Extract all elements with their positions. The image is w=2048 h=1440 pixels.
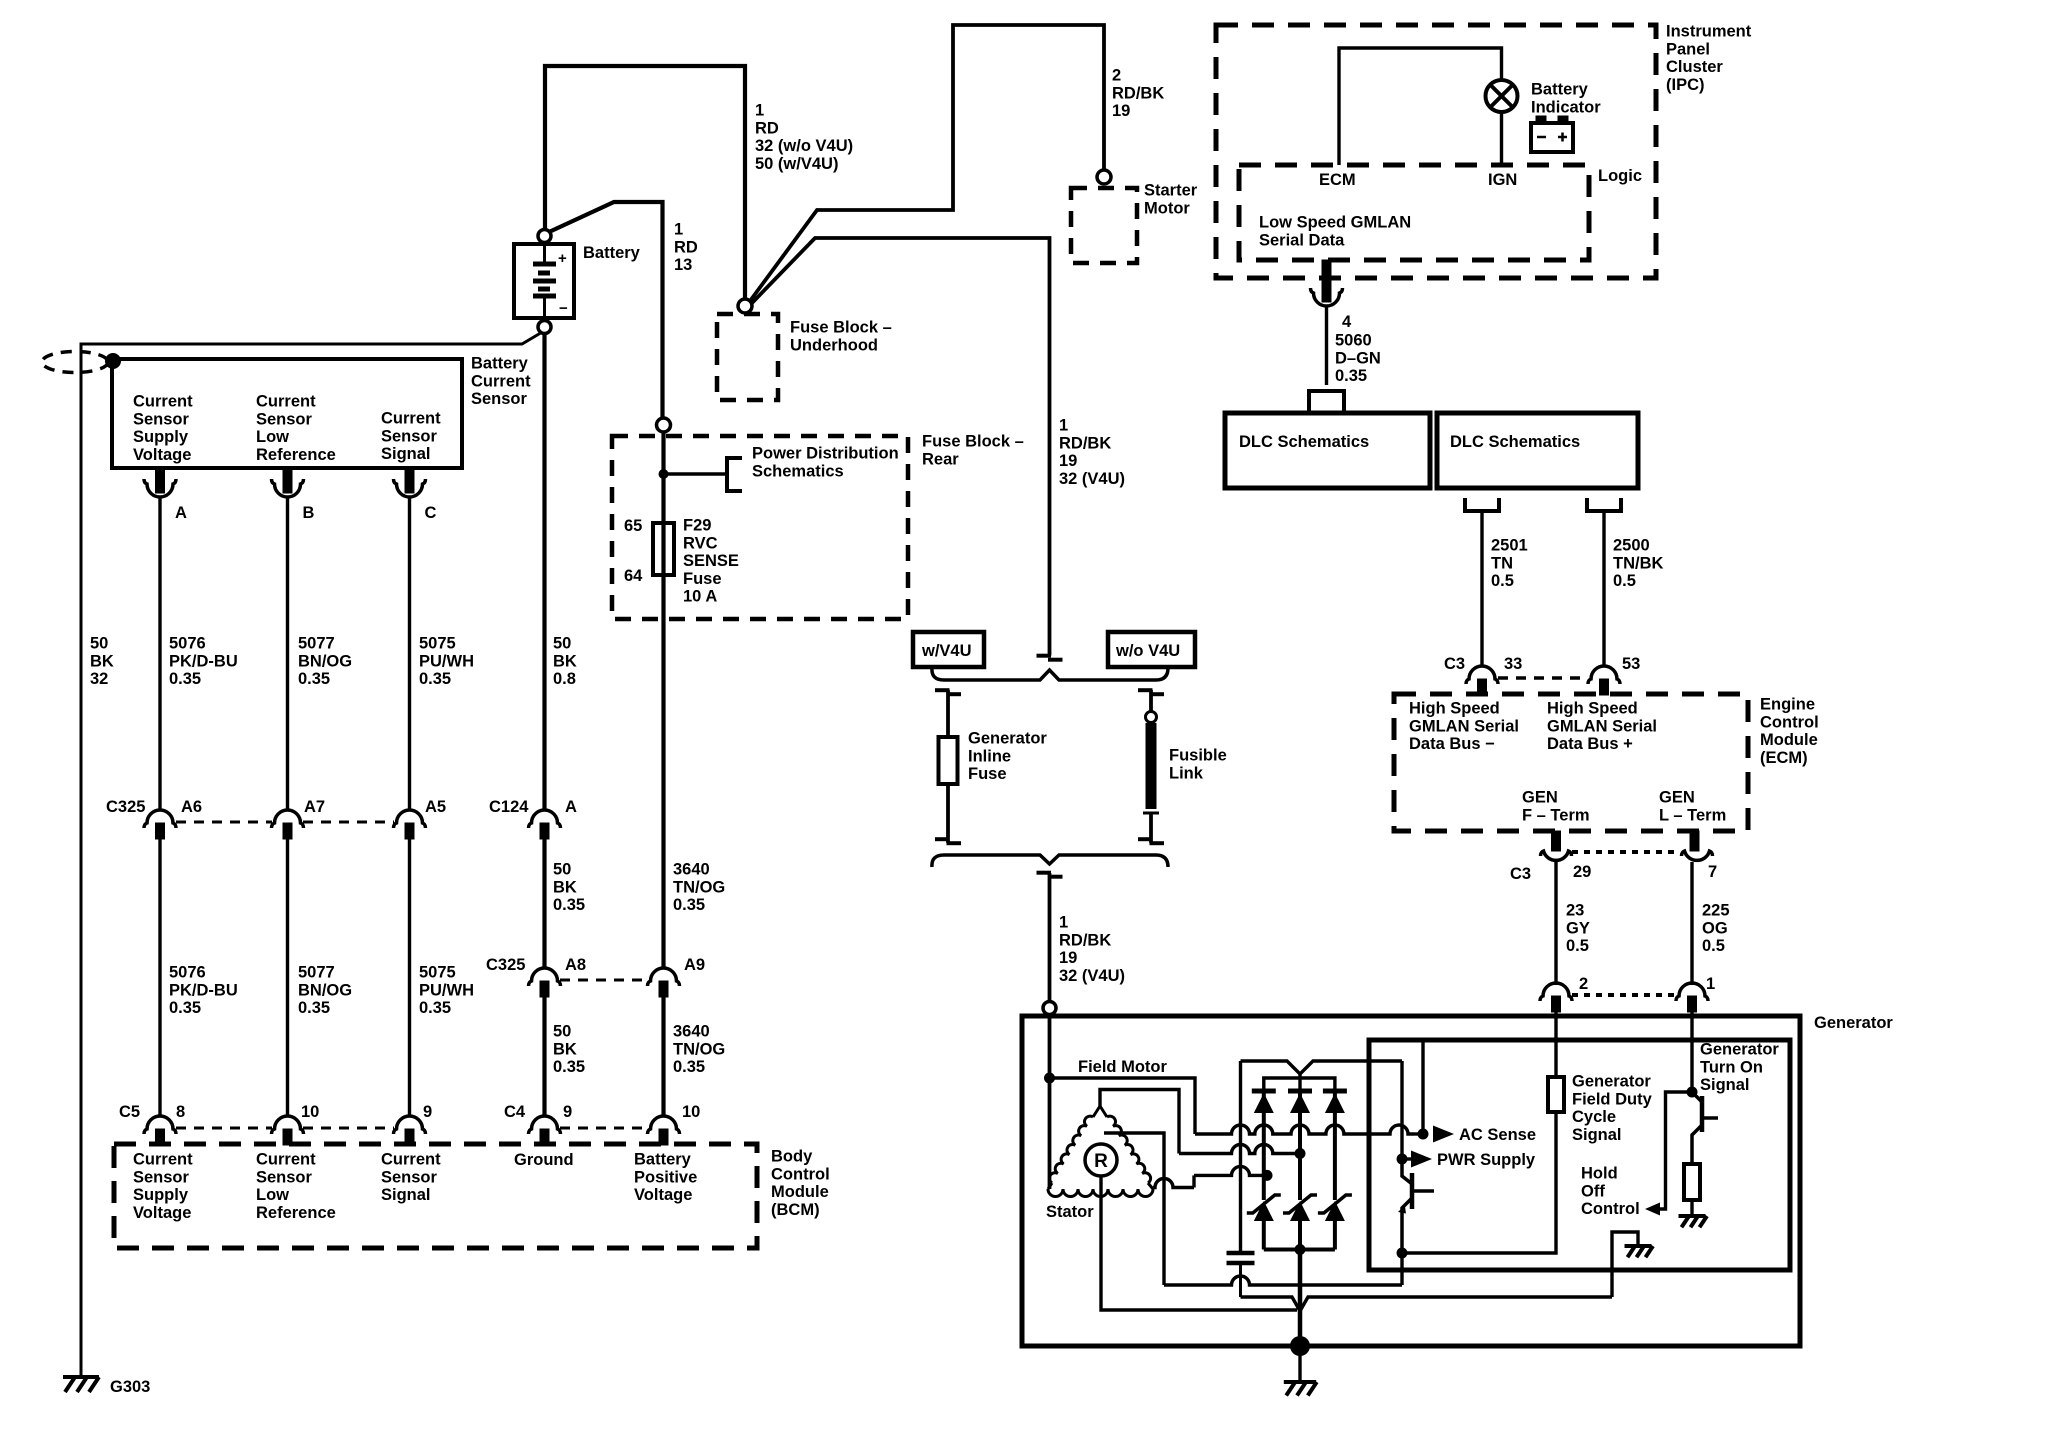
svg-text:Reference: Reference bbox=[256, 1204, 336, 1222]
regulator ground return to common node bbox=[1300, 1297, 1612, 1311]
svg-text:Sensor: Sensor bbox=[471, 390, 528, 408]
svg-text:Sensor: Sensor bbox=[256, 410, 313, 428]
connector C124 pin A bbox=[529, 798, 578, 839]
svg-text:A6: A6 bbox=[181, 798, 202, 816]
svg-text:C5: C5 bbox=[119, 1103, 140, 1121]
ECM pin L stub bbox=[1690, 831, 1699, 851]
label hold off control bbox=[1581, 1165, 1640, 1219]
wire A7 to C5 bbox=[286, 839, 289, 1116]
regulator ground bbox=[1625, 1246, 1654, 1257]
w/V4U branch wire tick bbox=[935, 690, 961, 694]
svg-text:Current: Current bbox=[256, 393, 316, 411]
svg-text:Serial Data: Serial Data bbox=[1259, 231, 1345, 249]
svg-text:C325: C325 bbox=[486, 956, 525, 974]
svg-text:65: 65 bbox=[624, 517, 642, 535]
svg-text:GEN: GEN bbox=[1522, 789, 1558, 807]
svg-text:C124: C124 bbox=[489, 798, 529, 816]
generator field duty cycle resistor bbox=[1548, 1077, 1564, 1112]
wire pin B to C325-A7 bbox=[286, 497, 289, 810]
rotor R bbox=[1085, 1144, 1117, 1176]
svg-text:50: 50 bbox=[553, 635, 571, 653]
svg-text:BK: BK bbox=[553, 878, 577, 896]
fuse block underhood node bbox=[738, 299, 752, 313]
battery icon in IPC bbox=[1531, 116, 1573, 152]
junction dot emitter node bbox=[1397, 1248, 1408, 1259]
svg-text:w/o V4U: w/o V4U bbox=[1115, 642, 1180, 660]
dashed link C4 9-10 bbox=[560, 1127, 648, 1130]
svg-text:Indicator: Indicator bbox=[1531, 98, 1601, 116]
junction dot phase to center rectifier leg bbox=[1295, 1148, 1306, 1159]
label wire 2 RD/BK 19 bbox=[1112, 67, 1164, 121]
svg-text:50: 50 bbox=[553, 861, 571, 879]
svg-text:Signal: Signal bbox=[381, 1186, 431, 1204]
svg-text:A: A bbox=[175, 504, 187, 522]
label wire 50 BK 0.35 lower bbox=[553, 1023, 585, 1077]
label generator field duty cycle signal bbox=[1572, 1073, 1653, 1144]
svg-text:Current: Current bbox=[133, 393, 193, 411]
svg-text:Cluster: Cluster bbox=[1666, 58, 1723, 76]
label fuse block rear bbox=[922, 433, 1024, 469]
generator box bbox=[1022, 1016, 1800, 1346]
connector pin 2 to generator bbox=[1540, 975, 1588, 1012]
label high speed GMLAN data bus plus bbox=[1547, 700, 1657, 754]
svg-text:Generator: Generator bbox=[1814, 1014, 1893, 1032]
engine control module (ECM) box bbox=[1394, 694, 1748, 831]
svg-text:BK: BK bbox=[553, 1040, 577, 1058]
svg-text:0.35: 0.35 bbox=[419, 670, 451, 688]
dashed link C325 A7-A5 bbox=[303, 821, 394, 824]
label low speed GMLAN serial data bbox=[1259, 214, 1411, 250]
svg-text:50: 50 bbox=[553, 1023, 571, 1041]
label connector C124 bbox=[489, 798, 529, 816]
label wire 2501 TN 0.5 bbox=[1491, 537, 1528, 591]
top brace of V4U split bbox=[932, 668, 1168, 680]
svg-text:Sensor: Sensor bbox=[133, 410, 190, 428]
svg-text:225: 225 bbox=[1702, 902, 1730, 920]
svg-text:9: 9 bbox=[423, 1103, 432, 1121]
wire regulator top to AC sense dot bbox=[1421, 1040, 1424, 1134]
svg-text:Low Speed GMLAN: Low Speed GMLAN bbox=[1259, 214, 1411, 232]
label battery current sensor bbox=[471, 355, 531, 409]
svg-text:0.8: 0.8 bbox=[553, 670, 576, 688]
svg-text:DLC Schematics: DLC Schematics bbox=[1450, 433, 1580, 451]
svg-text:1: 1 bbox=[755, 102, 764, 120]
svg-text:32 (w/o V4U): 32 (w/o V4U) bbox=[755, 137, 853, 155]
svg-text:Fuse Block –: Fuse Block – bbox=[790, 319, 892, 337]
svg-text:−: − bbox=[559, 300, 568, 317]
svg-text:OG: OG bbox=[1702, 919, 1728, 937]
svg-text:0.35: 0.35 bbox=[298, 670, 330, 688]
wire A8 to C4-9 bbox=[542, 997, 546, 1116]
battery bbox=[514, 244, 641, 318]
bottom brace of V4U split bbox=[932, 855, 1168, 867]
svg-text:Rear: Rear bbox=[922, 450, 959, 468]
dashed link C3 33-53 bbox=[1498, 676, 1588, 680]
svg-text:GEN: GEN bbox=[1659, 789, 1695, 807]
svg-text:Link: Link bbox=[1169, 764, 1204, 782]
hold off control wire bbox=[1660, 1092, 1687, 1209]
svg-text:9: 9 bbox=[563, 1103, 572, 1121]
label connector C325 bbox=[106, 798, 145, 816]
generator inline fuse bbox=[939, 737, 958, 784]
rectifier bottom bus bbox=[1264, 1248, 1335, 1252]
w/o V4U branch wire tick bbox=[1138, 690, 1164, 694]
wire ECM node to battery indicator bbox=[1339, 48, 1502, 165]
connector C325 pin A5 bbox=[394, 798, 447, 839]
svg-text:(IPC): (IPC) bbox=[1666, 76, 1705, 94]
svg-text:2: 2 bbox=[1112, 67, 1121, 85]
svg-text:19: 19 bbox=[1112, 102, 1130, 120]
label wire 50 BK 0.8 bbox=[553, 635, 577, 689]
svg-text:Signal: Signal bbox=[381, 445, 431, 463]
rectifier top diode 2 bbox=[1288, 1091, 1312, 1200]
svg-text:PK/D-BU: PK/D-BU bbox=[169, 981, 238, 999]
label wire 50 BK 0.35 bbox=[553, 861, 585, 915]
generator main ground leg bbox=[1298, 1250, 1303, 1347]
svg-text:Current: Current bbox=[471, 372, 531, 390]
svg-text:Stator: Stator bbox=[1046, 1203, 1094, 1221]
label field motor bbox=[1078, 1058, 1167, 1076]
svg-text:3640: 3640 bbox=[673, 861, 710, 879]
svg-text:B: B bbox=[303, 504, 315, 522]
wire V4U merge to generator bbox=[1048, 873, 1052, 1002]
svg-text:Reference: Reference bbox=[256, 446, 336, 464]
field motor wire to AC sense bbox=[1050, 1078, 1424, 1134]
svg-text:Generator: Generator bbox=[1572, 1073, 1651, 1091]
svg-text:Schematics: Schematics bbox=[752, 462, 844, 480]
svg-text:Motor: Motor bbox=[1144, 199, 1190, 217]
capacitor to common node bbox=[1241, 1297, 1301, 1311]
svg-text:RVC: RVC bbox=[683, 534, 718, 552]
wire pin 1 into generator bbox=[1690, 1012, 1693, 1092]
svg-text:10: 10 bbox=[301, 1103, 319, 1121]
svg-text:Battery: Battery bbox=[634, 1151, 692, 1169]
svg-text:32 (V4U): 32 (V4U) bbox=[1059, 967, 1125, 985]
svg-text:Engine: Engine bbox=[1760, 696, 1815, 714]
label power distribution schematics bbox=[752, 445, 899, 481]
instrument panel cluster (IPC) box bbox=[1216, 25, 1656, 278]
fusible link bbox=[1143, 723, 1159, 813]
svg-text:Voltage: Voltage bbox=[133, 446, 191, 464]
connector C4 pin 9 bbox=[529, 1103, 573, 1145]
svg-text:0.5: 0.5 bbox=[1491, 572, 1514, 590]
DLC bracket pin 53 bbox=[1587, 498, 1621, 511]
svg-text:33: 33 bbox=[1504, 655, 1522, 673]
svg-text:Fuse Block –: Fuse Block – bbox=[922, 433, 1024, 451]
svg-text:50 (w/V4U): 50 (w/V4U) bbox=[755, 155, 838, 173]
battery B+ top wire bbox=[545, 66, 745, 299]
rectifier top diode 1 bbox=[1252, 1091, 1276, 1200]
svg-text:5077: 5077 bbox=[298, 635, 335, 653]
svg-text:Inline: Inline bbox=[968, 747, 1011, 765]
svg-text:Fuse: Fuse bbox=[968, 765, 1007, 783]
svg-text:BN/OG: BN/OG bbox=[298, 981, 352, 999]
label GEN L-Term bbox=[1659, 789, 1726, 825]
stator top phase wire bbox=[1100, 1090, 1295, 1154]
fuse block rear input node bbox=[657, 418, 671, 432]
svg-text:0.35: 0.35 bbox=[169, 670, 201, 688]
wire 1RD/BK into stator left vertex bbox=[1048, 1078, 1052, 1189]
connector C3 pin 33 bbox=[1466, 655, 1522, 695]
wire C124 to C325-A8 bbox=[542, 839, 546, 968]
svg-text:1: 1 bbox=[674, 221, 683, 239]
label stator bbox=[1046, 1203, 1094, 1221]
svg-text:Supply: Supply bbox=[133, 428, 189, 446]
wire A6 to C5 bbox=[158, 839, 161, 1116]
wire 23 GY bbox=[1554, 862, 1557, 985]
generator ground wire bbox=[1298, 1346, 1301, 1380]
fuse F29 RVC SENSE bbox=[624, 517, 674, 585]
rotor ground wire bbox=[1101, 1176, 1297, 1310]
w/o V4U branch lower tick bbox=[1138, 839, 1164, 843]
battery indicator lamp bbox=[1486, 80, 1518, 112]
AC sense arrow bbox=[1433, 1126, 1536, 1145]
wire A5 to C5 bbox=[408, 839, 411, 1116]
svg-text:7: 7 bbox=[1708, 863, 1717, 881]
generator case ground bbox=[1284, 1382, 1317, 1396]
dotted link C3 29-7 bbox=[1572, 850, 1680, 854]
svg-text:PU/WH: PU/WH bbox=[419, 981, 474, 999]
PWR supply arrow bbox=[1402, 1151, 1536, 1170]
svg-text:High Speed: High Speed bbox=[1547, 700, 1638, 718]
svg-text:Instrument: Instrument bbox=[1666, 23, 1752, 41]
svg-text:10: 10 bbox=[682, 1103, 700, 1121]
svg-text:GMLAN Serial: GMLAN Serial bbox=[1409, 717, 1519, 735]
body control module (BCM) box bbox=[114, 1144, 757, 1248]
svg-text:Module: Module bbox=[1760, 731, 1818, 749]
svg-text:Signal: Signal bbox=[1572, 1126, 1622, 1144]
svg-text:Current: Current bbox=[381, 1151, 441, 1169]
junction dot generator turn on bbox=[1687, 1087, 1698, 1098]
svg-text:L – Term: L – Term bbox=[1659, 806, 1726, 824]
turn-on ground bbox=[1679, 1216, 1708, 1227]
wire pin A to C325-A6 bbox=[158, 497, 161, 810]
svg-text:Sensor: Sensor bbox=[133, 1168, 190, 1186]
svg-text:Field Motor: Field Motor bbox=[1078, 1058, 1167, 1076]
wire to power distribution schematics bbox=[664, 472, 728, 475]
label wire 5077 BN/OG 0.35 lower bbox=[298, 964, 352, 1018]
svg-text:Voltage: Voltage bbox=[634, 1186, 692, 1204]
svg-text:Supply: Supply bbox=[133, 1186, 189, 1204]
svg-text:Fuse: Fuse bbox=[683, 570, 722, 588]
wire battery negative down to C124 bbox=[542, 333, 546, 810]
label instrument panel cluster (IPC) bbox=[1666, 23, 1752, 94]
svg-text:0.35: 0.35 bbox=[673, 1058, 705, 1076]
wire 5060 to DLC bbox=[1325, 306, 1328, 385]
svg-text:Cycle: Cycle bbox=[1572, 1108, 1616, 1126]
wire to fusible link bbox=[1149, 690, 1153, 712]
fusible link top node bbox=[1146, 712, 1157, 723]
rectifier top diode 3 bbox=[1323, 1091, 1347, 1200]
svg-text:TN/OG: TN/OG bbox=[673, 878, 725, 896]
svg-text:C3: C3 bbox=[1444, 655, 1465, 673]
label wire 50 BK 32 bbox=[90, 635, 114, 689]
svg-text:50: 50 bbox=[90, 635, 108, 653]
fuse block rear box bbox=[612, 436, 908, 619]
svg-text:SENSE: SENSE bbox=[683, 552, 739, 570]
svg-text:5076: 5076 bbox=[169, 635, 206, 653]
dashed link C325 A8-A9 bbox=[560, 979, 648, 982]
svg-text:Underhood: Underhood bbox=[790, 336, 878, 354]
svg-text:2500: 2500 bbox=[1613, 537, 1650, 555]
turn-on resistor bbox=[1684, 1164, 1700, 1200]
label BCM current sensor signal bbox=[381, 1151, 441, 1205]
svg-text:8: 8 bbox=[176, 1103, 185, 1121]
svg-text:13: 13 bbox=[674, 256, 692, 274]
svg-text:Battery: Battery bbox=[1531, 81, 1589, 99]
dotted link pins 2-1 bbox=[1572, 993, 1680, 997]
label wire 5076 PK/D-BU 0.35 lower bbox=[169, 964, 238, 1018]
wire-end tick below V4U merge bbox=[1037, 873, 1063, 877]
svg-text:10 A: 10 A bbox=[683, 588, 717, 606]
label fusible link bbox=[1169, 747, 1227, 783]
label wire 5075 PU/WH 0.35 lower bbox=[419, 964, 474, 1018]
svg-text:32 (V4U): 32 (V4U) bbox=[1059, 470, 1125, 488]
svg-text:RD/BK: RD/BK bbox=[1112, 84, 1164, 102]
svg-text:53: 53 bbox=[1622, 655, 1640, 673]
svg-text:GMLAN Serial: GMLAN Serial bbox=[1547, 717, 1657, 735]
rectifier bottom diode 2 bbox=[1283, 1195, 1317, 1250]
svg-text:RD/BK: RD/BK bbox=[1059, 931, 1111, 949]
generator input node bbox=[1043, 1002, 1056, 1015]
wire 225 OG bbox=[1690, 862, 1693, 985]
junction dot bottom bus bbox=[1295, 1244, 1306, 1255]
svg-text:ECM: ECM bbox=[1319, 171, 1356, 189]
svg-text:0.35: 0.35 bbox=[419, 999, 451, 1017]
label BCM battery positive voltage bbox=[634, 1151, 697, 1205]
dashed link C325 A6-A7 bbox=[176, 821, 272, 824]
svg-text:32: 32 bbox=[90, 670, 108, 688]
svg-text:C4: C4 bbox=[504, 1103, 526, 1121]
junction dot to power distribution bbox=[659, 469, 669, 479]
field duty return wire bbox=[1402, 1112, 1556, 1253]
svg-text:4: 4 bbox=[1342, 313, 1352, 331]
svg-text:Sensor: Sensor bbox=[256, 1168, 313, 1186]
label ECM node bbox=[1319, 171, 1356, 189]
svg-text:19: 19 bbox=[1059, 452, 1077, 470]
connector pin 1 to generator bbox=[1676, 975, 1715, 1012]
svg-text:RD: RD bbox=[674, 238, 698, 256]
svg-text:Voltage: Voltage bbox=[133, 1204, 191, 1222]
svg-text:RD: RD bbox=[755, 119, 779, 137]
label wire 5060 D-GN 0.35 bbox=[1335, 332, 1381, 386]
svg-text:+: + bbox=[558, 250, 567, 267]
wire pin 2 into generator bbox=[1554, 1012, 1557, 1077]
svg-text:Off: Off bbox=[1581, 1182, 1605, 1200]
svg-text:Positive: Positive bbox=[634, 1168, 697, 1186]
emitter to phase wire bbox=[1400, 1253, 1403, 1285]
svg-text:0.5: 0.5 bbox=[1613, 572, 1636, 590]
svg-text:High Speed: High Speed bbox=[1409, 700, 1500, 718]
connector pin B of battery current sensor bbox=[272, 468, 315, 522]
label wire 1 RD 13 bbox=[674, 221, 698, 275]
label wire 1 RD/BK 19 32 (V4U) lower bbox=[1059, 914, 1125, 985]
connector pin 7 (GEN L) bbox=[1682, 851, 1718, 881]
junction dot PWR supply bbox=[1397, 1154, 1408, 1165]
svg-text:Battery: Battery bbox=[583, 244, 641, 262]
connector C5 pin 9 bbox=[394, 1103, 433, 1145]
connector C325 pin A7 bbox=[272, 798, 326, 839]
transistor Q2 turn-on bbox=[1692, 1092, 1718, 1164]
svg-text:A5: A5 bbox=[425, 798, 446, 816]
rectifier inner rail bbox=[1264, 1078, 1335, 1091]
svg-text:5076: 5076 bbox=[169, 964, 206, 982]
svg-text:0.35: 0.35 bbox=[1335, 367, 1367, 385]
svg-text:A7: A7 bbox=[304, 798, 325, 816]
svg-text:D–GN: D–GN bbox=[1335, 349, 1381, 367]
svg-text:F29: F29 bbox=[683, 517, 711, 535]
svg-text:Data Bus +: Data Bus + bbox=[1547, 735, 1633, 753]
svg-text:1: 1 bbox=[1059, 914, 1068, 932]
svg-text:A8: A8 bbox=[565, 956, 586, 974]
IPC pin 4 connector cup bbox=[1311, 260, 1343, 306]
wire below fusible link bbox=[1149, 813, 1153, 843]
fuse block underhood box bbox=[717, 314, 778, 400]
svg-text:1: 1 bbox=[1706, 975, 1715, 993]
label wire 5076 PK/D-BU 0.35 bbox=[169, 635, 238, 689]
connector C3 pin 29 (GEN F) bbox=[1510, 851, 1591, 883]
junction dot generator ground bbox=[1290, 1336, 1310, 1356]
label wire 225 OG 0.5 bbox=[1702, 902, 1730, 956]
w/o V4U tag box bbox=[1108, 632, 1195, 667]
svg-text:2: 2 bbox=[1579, 975, 1588, 993]
wire battery indicator to IGN bbox=[1500, 112, 1503, 166]
svg-text:A9: A9 bbox=[684, 956, 705, 974]
svg-text:5077: 5077 bbox=[298, 964, 335, 982]
svg-text:IGN: IGN bbox=[1488, 171, 1517, 189]
battery positive terminal node bbox=[538, 230, 551, 243]
wire 2500 TN/BK bbox=[1602, 511, 1605, 666]
svg-text:2501: 2501 bbox=[1491, 537, 1528, 555]
svg-text:(ECM): (ECM) bbox=[1760, 749, 1808, 767]
label BCM current sensor supply voltage bbox=[133, 1151, 193, 1222]
junction dot phase to left rectifier leg bbox=[1262, 1170, 1273, 1181]
connector C5 pin 10 bbox=[272, 1103, 320, 1145]
label generator inline fuse bbox=[968, 730, 1047, 784]
DLC schematics box right bbox=[1437, 413, 1638, 488]
label connector C5 bbox=[119, 1103, 140, 1121]
battery current sensor box bbox=[112, 359, 462, 468]
svg-text:0.5: 0.5 bbox=[1702, 937, 1725, 955]
hold off control arrow bbox=[1645, 1203, 1660, 1216]
label high speed GMLAN data bus minus bbox=[1409, 700, 1519, 754]
svg-text:BK: BK bbox=[90, 652, 114, 670]
svg-text:Panel: Panel bbox=[1666, 40, 1710, 58]
svg-text:Generator: Generator bbox=[968, 730, 1047, 748]
capacitor bbox=[1227, 1253, 1255, 1297]
svg-text:F – Term: F – Term bbox=[1522, 806, 1590, 824]
label pin 4 bbox=[1342, 313, 1352, 331]
power distribution schematics pointer bbox=[727, 458, 742, 491]
connector C4 pin 10 bbox=[648, 1103, 701, 1145]
svg-text:Data Bus −: Data Bus − bbox=[1409, 735, 1495, 753]
svg-text:Control: Control bbox=[771, 1165, 830, 1183]
rectifier bottom diode 1 bbox=[1247, 1195, 1281, 1250]
wire pin C to C325-A5 bbox=[408, 497, 411, 810]
svg-text:Current: Current bbox=[256, 1151, 316, 1169]
connector C5 pin 8 bbox=[144, 1103, 185, 1145]
svg-text:Signal: Signal bbox=[1700, 1076, 1750, 1094]
label fuse block underhood bbox=[790, 319, 892, 355]
svg-text:GY: GY bbox=[1566, 919, 1590, 937]
voltage regulator box bbox=[1369, 1040, 1790, 1270]
svg-text:0.35: 0.35 bbox=[553, 896, 585, 914]
junction dot field motor bbox=[1044, 1073, 1055, 1084]
label wire 2500 TN/BK 0.5 bbox=[1613, 537, 1663, 591]
connector C325 pin A6 bbox=[144, 798, 202, 839]
svg-text:C: C bbox=[425, 504, 437, 522]
svg-text:Logic: Logic bbox=[1598, 167, 1642, 185]
